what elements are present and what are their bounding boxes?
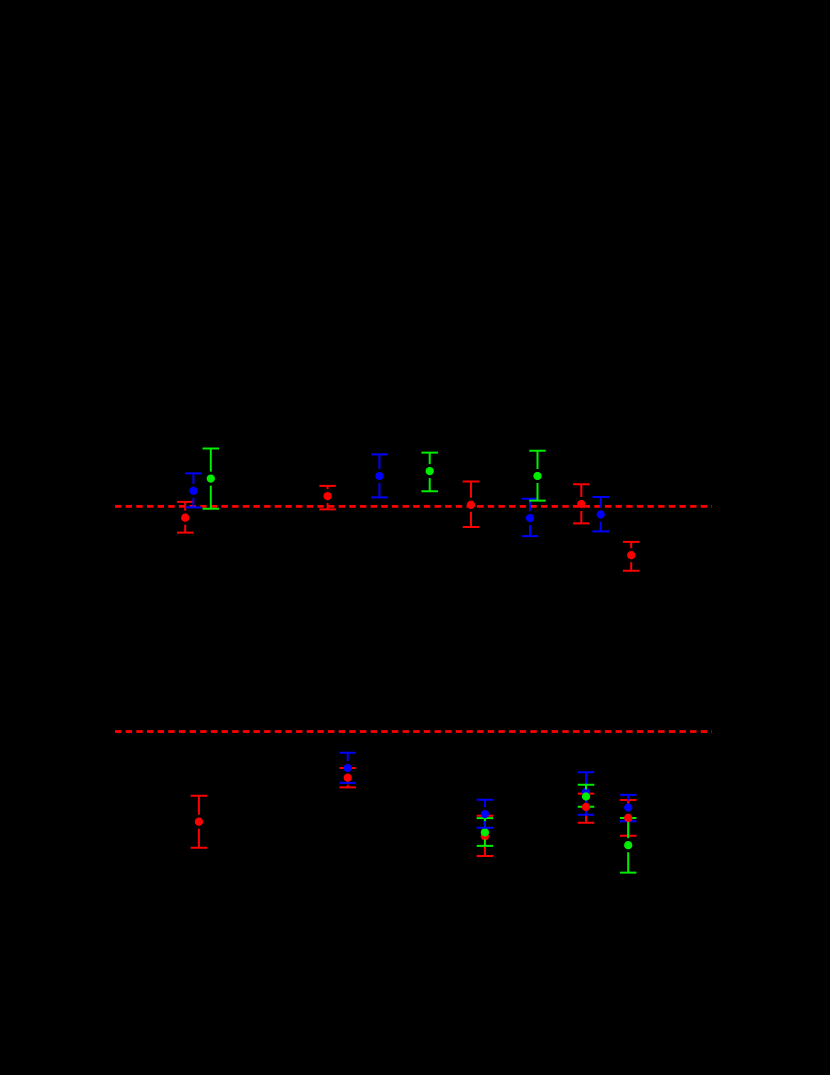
top panel: errorbar green 3 [529, 451, 546, 501]
bottom panel: errorbar red 8 [477, 816, 494, 856]
bottom panel: errorbar green 5 [578, 785, 595, 807]
top panel: errorbar blue 3 [522, 499, 539, 536]
top panel: errorbar blue 2 [371, 454, 388, 497]
bottom panel: errorbar blue 5 marker [344, 764, 352, 772]
bottom panel: errorbar green 6 [620, 818, 637, 873]
bottom panel: errorbar red 7 [339, 768, 356, 787]
top panel: errorbar green 2 [421, 453, 438, 492]
bottom panel: errorbar red 9 bars [578, 794, 595, 823]
reference dashed line bottom panel [115, 730, 712, 733]
bottom panel: errorbar blue 6 [477, 800, 494, 828]
top panel: errorbar green 1 [203, 449, 220, 509]
bottom panel: errorbar blue 5 bars [339, 753, 356, 783]
top panel: errorbar blue 4 [592, 497, 609, 531]
bottom panel: errorbar red 10 bars [620, 800, 637, 836]
bottom panel: errorbar green 4 [477, 818, 494, 846]
bottom panel: errorbar red 6 [191, 796, 208, 848]
top panel: errorbar blue 1 [185, 473, 202, 507]
top panel: errorbar red 4 [573, 484, 590, 523]
top panel: errorbar red 2 [319, 486, 336, 510]
top panel: errorbar red 5 [623, 542, 640, 571]
top panel: errorbar red 1 [177, 502, 194, 533]
bottom panel: errorbar blue 7 [578, 772, 595, 815]
bottom panel: errorbar red 9 marker [582, 803, 590, 811]
top panel: errorbar red 3 [463, 482, 480, 528]
bottom panel: errorbar blue 8 [620, 795, 637, 821]
bottom panel: errorbar red 10 marker [624, 814, 632, 822]
reference dashed line top panel [115, 505, 712, 508]
